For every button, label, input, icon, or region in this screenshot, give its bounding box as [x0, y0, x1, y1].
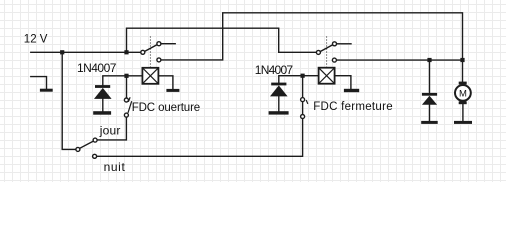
wire nuit to FDC fermeture [97, 119, 303, 157]
wire 12V rail [31, 51, 141, 53]
wire SW2 feed up-over [127, 28, 317, 52]
switch jour/nuit common contact [76, 147, 80, 151]
switch FDC ouverture bottom contact [124, 113, 128, 117]
wire coil2 to FDC fermeture [302, 78, 304, 117]
diode D1 cathode bar [95, 85, 110, 88]
ground G7 [454, 121, 472, 124]
svg-text:nuit: nuit [104, 160, 126, 174]
wire FDC ouverture to jour contact [97, 117, 126, 140]
diode D2 cathode bar [271, 83, 286, 86]
ground G6 [421, 121, 438, 124]
switch FDC fermeture bottom contact [301, 115, 305, 119]
relay coil K1 box [142, 68, 158, 84]
node junction coil2 [301, 74, 305, 78]
dashed link relay K1 [149, 37, 151, 68]
diode D2 triangle [270, 85, 288, 96]
switch jour/nuit lever [80, 141, 93, 148]
wire D2 to ground [278, 96, 280, 111]
wire coil1 to FDC ouverture [126, 78, 128, 98]
relay coil K2 box [319, 68, 335, 84]
wire motor drop [462, 62, 464, 82]
wire D3 drop [429, 60, 431, 93]
wire K2 to ground [335, 76, 351, 89]
dashed link relay K2 [326, 37, 328, 67]
switch FDC ouverture top contact [124, 98, 128, 102]
wire SW1 lower to top rail [161, 13, 462, 60]
node junction rail-SW2feed [124, 50, 128, 54]
wire coil2 branch left to D2 [279, 76, 319, 83]
diode D3 triangle [422, 96, 437, 105]
motor M1 top brush [459, 82, 467, 85]
switch FDC fermeture lever tick [306, 101, 307, 104]
wire jour drop [62, 52, 75, 149]
switch SW1 lever [145, 45, 157, 52]
node junction motor [460, 58, 464, 62]
svg-text:jour: jour [99, 123, 121, 137]
diode D3 cathode bar [422, 93, 437, 96]
wire motor to ground [462, 104, 464, 121]
switch jour contact [93, 138, 97, 142]
switch SW1 common contact [141, 50, 145, 54]
switch SW2 lever [321, 45, 333, 52]
relay coil K2 X [319, 68, 335, 84]
wire SW1 upper stub [161, 43, 175, 45]
ground G2 [166, 89, 179, 92]
switch SW2 lower contact [332, 58, 336, 62]
switch SW2 common contact [316, 50, 320, 54]
ground G1 wire [31, 77, 47, 89]
switch FDC ouverture lever tick [129, 98, 130, 101]
switch FDC ouverture lever [128, 102, 131, 112]
diode D1 triangle [94, 88, 112, 99]
wire coil1 branch left to D1 [103, 76, 143, 85]
node junction coil1 [124, 74, 128, 78]
ground G3 [93, 111, 111, 115]
wire SW2 upper stub [337, 43, 351, 45]
wire SW2 lower to motor node [337, 59, 463, 61]
svg-text:1N4007: 1N4007 [77, 61, 117, 75]
ground G1 [40, 89, 53, 92]
ground G5 [344, 89, 359, 92]
motor M1 circle [455, 85, 471, 101]
ground G4 [269, 111, 289, 114]
switch SW2 upper contact [333, 42, 337, 46]
relay coil K1 X [142, 68, 158, 84]
svg-text:M: M [459, 88, 467, 99]
svg-text:FDC ouerture: FDC ouerture [132, 102, 201, 114]
wire D1 to ground [102, 99, 104, 111]
wire K1 to ground [158, 76, 173, 89]
switch SW1 lower contact [157, 58, 161, 62]
wire D3 to ground [429, 105, 431, 121]
motor M1 bottom brush [459, 101, 467, 104]
node junction D3 [427, 58, 431, 62]
svg-text:FDC fermeture: FDC fermeture [313, 101, 392, 113]
switch FDC fermeture top contact [301, 98, 305, 102]
switch SW1 upper contact [157, 42, 161, 46]
switch nuit contact [93, 154, 97, 158]
node junction rail-jour [60, 50, 64, 54]
svg-text:12 V: 12 V [24, 33, 48, 45]
